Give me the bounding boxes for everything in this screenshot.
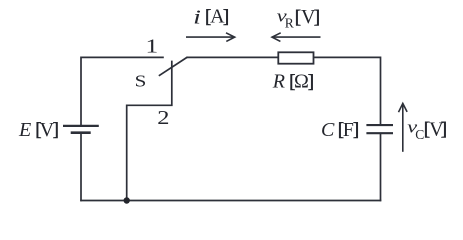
label 2 (switch contact) [157,106,169,128]
svg-text:]: ] [314,7,320,28]
wire switch contact 2 riser [127,61,172,201]
label R [ohm] [272,71,314,93]
label C [F] [321,119,359,141]
resistor R [278,52,313,63]
svg-text:R: R [285,16,294,31]
svg-text:1: 1 [146,35,159,57]
node junction dot [124,197,130,203]
wire top-left from battery to switch contact 1 [81,57,164,125]
svg-text:]: ] [223,6,229,27]
svg-text:E: E [18,119,31,141]
arrow vC (points up) [399,103,408,151]
svg-text:]: ] [308,71,314,92]
svg-text:i: i [193,6,201,28]
battery E [63,126,99,133]
svg-text:C: C [321,119,335,141]
wire right lower (capacitor to bottom) [380,134,382,201]
capacitor C [366,125,393,133]
arrow vR (points left) [272,33,321,42]
switch S blade [159,57,188,76]
wire bottom [80,200,381,202]
svg-text:]: ] [353,120,359,141]
svg-text:Ω: Ω [294,71,309,93]
svg-text:2: 2 [157,106,169,128]
wire from resistor to right corner [313,57,381,124]
wire left lower (battery negative to bottom) [80,133,82,201]
svg-text:R: R [272,71,285,93]
label vR [V] [277,6,320,30]
label S (switch) [135,73,147,91]
current arrow i [186,33,235,42]
wire top-right from switch pole to resistor [187,56,279,58]
svg-text:S: S [135,73,147,91]
label 1 (switch contact) [146,35,159,57]
label vC [V] [407,118,447,142]
svg-text:]: ] [441,119,447,140]
label i [A] [193,6,229,29]
label E [V] [18,119,59,141]
svg-text:]: ] [53,120,59,141]
